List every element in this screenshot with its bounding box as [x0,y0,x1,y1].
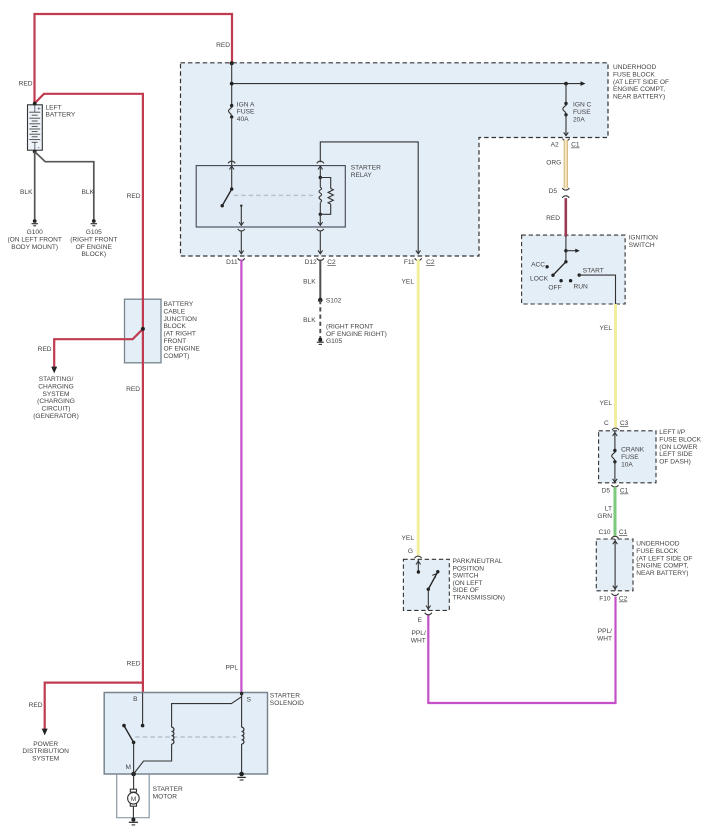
svg-text:LT: LT [605,506,612,513]
fuse IGN A 40A [228,101,255,123]
svg-text:LEFT SIDE: LEFT SIDE [659,451,693,458]
svg-text:(AT LEFT SIDE OF: (AT LEFT SIDE OF [636,555,692,562]
svg-text:TRANSMISSION): TRANSMISSION) [453,595,505,602]
svg-text:D5: D5 [549,188,558,195]
starter motor M [128,786,183,806]
svg-text:M: M [126,764,132,771]
svg-text:POWER: POWER [33,741,58,748]
ground at solenoid (S coil) [237,777,245,780]
svg-text:F10: F10 [599,596,611,603]
svg-text:RUN: RUN [574,284,589,291]
battery cable junction block box [125,299,201,363]
svg-text:G: G [408,548,413,555]
svg-text:C1: C1 [571,142,580,149]
starter motor housing box [117,774,150,818]
connector D12 C2 [305,258,336,266]
svg-text:D11: D11 [226,259,238,266]
svg-text:B: B [133,696,138,703]
svg-text:(ON LOWER: (ON LOWER [659,444,697,451]
starter relay box [196,165,381,227]
svg-text:E: E [418,617,423,624]
label starting/charging system [33,376,79,420]
relay pin arc (switch input) [228,161,235,163]
underhood block 2 internal wire [613,539,618,591]
svg-text:-: - [38,144,40,151]
starter solenoid box [104,693,304,775]
svg-text:STARTER: STARTER [270,693,300,700]
svg-text:MOTOR: MOTOR [153,793,178,800]
svg-text:RED: RED [29,702,43,709]
relay switch [221,166,244,226]
relay linkage dashed [234,194,316,196]
svg-text:JUNCTION: JUNCTION [164,316,198,323]
svg-text:BLOCK: BLOCK [164,323,187,330]
svg-text:FRONT: FRONT [164,338,187,345]
svg-text:BLOCK): BLOCK) [82,251,107,258]
svg-text:LOCK: LOCK [530,276,549,283]
wire PPL D11 to solenoid S [226,260,242,693]
ground G100 [7,219,61,251]
svg-text:C1: C1 [619,529,628,536]
svg-text:NEAR BATTERY): NEAR BATTERY) [636,570,688,577]
svg-text:STARTER: STARTER [153,786,183,793]
svg-text:M: M [131,796,137,803]
svg-text:ENGINE COMPT,: ENGINE COMPT, [636,563,688,570]
connector C10 C1 [598,529,627,538]
svg-text:D12: D12 [305,259,317,266]
solenoid pull-in coil (left) [134,693,242,774]
svg-text:UNDERHOOD: UNDERHOOD [613,64,656,71]
crank fuse internal wire bottom [613,462,618,483]
svg-text:40A: 40A [237,116,249,123]
relay pin arc (switch output, below) [238,229,245,254]
svg-text:SIDE OF: SIDE OF [453,587,479,594]
svg-text:(CHARGING: (CHARGING [37,398,75,405]
svg-text:F11: F11 [404,259,415,266]
svg-text:ACC: ACC [531,262,545,269]
svg-text:WHT: WHT [597,635,612,642]
svg-text:PPL: PPL [226,665,239,672]
svg-text:BODY MOUNT): BODY MOUNT) [11,244,58,251]
wire IGN C fuse to A2 exit with arrow [564,115,569,136]
svg-text:ENGINE COMPT,: ENGINE COMPT, [613,86,665,93]
connector G [408,548,422,558]
svg-text:SWITCH: SWITCH [453,573,479,580]
svg-text:OF DASH): OF DASH) [659,459,691,466]
svg-text:CIRCUIT): CIRCUIT) [42,406,71,413]
svg-text:BLK: BLK [20,189,33,196]
wire YEL F11 to park/neutral G [402,260,419,556]
svg-text:UNDERHOOD: UNDERHOOD [636,541,679,548]
label power distribution system [22,741,69,763]
svg-text:PPL/: PPL/ [598,628,612,635]
svg-text:DISTRIBUTION: DISTRIBUTION [22,748,69,755]
underhood fuse block (second, right column) [596,539,692,591]
svg-text:C2: C2 [426,259,435,266]
wire YEL ignition to C [600,304,616,428]
svg-text:LEFT I/P: LEFT I/P [659,429,685,436]
park/neutral switch internals [416,559,439,610]
svg-text:G100: G100 [27,229,43,236]
svg-text:IGN C: IGN C [573,102,592,109]
left I/P fuse block box [599,429,701,483]
svg-text:SOLENOID: SOLENOID [270,700,304,707]
svg-text:RED: RED [38,346,52,353]
underhood fuse block label [613,64,669,101]
connector D11 [226,258,245,266]
splice S102 [318,298,342,305]
svg-text:IGNITION: IGNITION [629,235,659,242]
solenoid linkage dashed [135,736,236,738]
svg-text:FUSE BLOCK: FUSE BLOCK [659,436,701,443]
solenoid pin labels [126,696,252,771]
ignition switch internals [530,236,615,304]
svg-text:(RIGHT FRONT: (RIGHT FRONT [326,324,373,331]
crank fuse internal wire top [613,431,618,451]
ignition switch box [522,235,659,305]
svg-text:(AT LEFT SIDE OF: (AT LEFT SIDE OF [613,79,669,86]
svg-text:PARK/NEUTRAL: PARK/NEUTRAL [453,558,503,565]
svg-text:20A: 20A [573,116,585,123]
svg-text:D5: D5 [602,488,611,495]
wire RED battery to fuse block (top run) [19,14,232,104]
ground at starter motor [129,818,138,825]
wire RED battery to junction block / solenoid B (main feed) [35,94,143,693]
svg-text:RELAY: RELAY [351,172,373,179]
svg-text:START: START [583,268,604,275]
svg-text:(ON LEFT FRONT: (ON LEFT FRONT [7,236,61,243]
connector C C3 [604,420,629,430]
svg-text:FUSE: FUSE [573,109,591,116]
svg-text:BLK: BLK [82,189,95,196]
node battery feed into fuse block [230,61,234,65]
ground G105 [70,219,117,258]
svg-text:POSITION: POSITION [453,565,485,572]
svg-text:NEAR BATTERY): NEAR BATTERY) [613,94,665,101]
connector D5 C1 [602,485,629,495]
battery LEFT BATTERY [28,102,76,154]
svg-text:+: + [37,106,41,113]
svg-text:IGN A: IGN A [237,101,255,108]
svg-text:FUSE: FUSE [621,454,639,461]
svg-text:YEL: YEL [402,279,415,286]
svg-text:CRANK: CRANK [621,447,645,454]
svg-text:COMPT): COMPT) [164,353,190,360]
svg-text:GRN: GRN [597,513,612,520]
wire RED D5 to ignition switch [546,198,566,236]
fuse CRANK 10A [612,447,645,469]
svg-text:CABLE: CABLE [164,308,186,315]
svg-text:C10: C10 [598,529,610,536]
svg-text:BATTERY: BATTERY [164,301,194,308]
underhood fuse block (main, L-shaped) [181,63,609,256]
wire internal bus in fuse block [230,63,586,105]
park/neutral position switch box [403,558,504,610]
svg-text:RED: RED [546,215,560,222]
svg-text:OF ENGINE RIGHT): OF ENGINE RIGHT) [326,331,387,338]
svg-text:RED: RED [216,42,230,49]
connector D5 (inline) [549,188,570,198]
svg-text:A2: A2 [551,142,559,149]
svg-text:PPL/: PPL/ [412,630,426,637]
svg-text:(AT RIGHT: (AT RIGHT [164,331,196,338]
wire PPL/WHT right column down and across [411,597,616,704]
solenoid contact switch [122,693,144,776]
connector F10 C2 [599,593,627,602]
svg-text:(ON LEFT: (ON LEFT [453,580,483,587]
node S terminal [240,692,243,695]
svg-text:YEL: YEL [402,535,415,542]
wire ORG A2 to D5 [546,140,566,188]
wire BLK D12 to S102 [303,260,320,301]
svg-text:ORG: ORG [546,159,561,166]
wire F11 feed to relay coil [320,142,420,254]
junction block splice dot and branch to charging system [38,327,145,374]
svg-text:RED: RED [19,81,33,88]
svg-text:FUSE BLOCK: FUSE BLOCK [613,71,655,78]
wire M to starter motor [133,774,135,790]
ground G105 (engine right) [317,324,387,346]
svg-text:C2: C2 [327,259,336,266]
connector F11 C2 [404,258,435,266]
svg-text:G105: G105 [326,338,342,345]
wire RED branch to power distribution [29,683,143,736]
svg-text:FUSE BLOCK: FUSE BLOCK [636,548,678,555]
wire LT GRN [597,487,615,536]
relay coil with parallel resistor [318,166,333,226]
svg-text:RED: RED [126,386,140,393]
svg-text:G105: G105 [86,229,102,236]
svg-text:YEL: YEL [600,400,613,407]
solenoid hold-in coil (right) [239,693,244,776]
svg-text:SYSTEM: SYSTEM [42,391,69,398]
svg-text:STARTER: STARTER [351,165,381,172]
wire BLK battery to G105 [35,152,95,220]
svg-text:BLK: BLK [303,317,316,324]
wire IGN A fuse to relay [231,117,233,166]
svg-text:YEL: YEL [600,325,613,332]
connector A2 C1 [551,139,580,149]
wire BLK battery to G100 [20,152,35,220]
relay pin arc (coil output, below) [317,229,324,254]
wire starter motor to ground [132,806,134,820]
wire BLK S102 to G105 (dashed) [303,300,320,339]
svg-text:OF ENGINE: OF ENGINE [164,345,201,352]
relay pin arc (coil input) [317,161,324,163]
svg-text:S102: S102 [326,298,342,305]
svg-text:FUSE: FUSE [237,109,255,116]
svg-text:C1: C1 [620,488,629,495]
svg-text:C3: C3 [620,420,629,427]
svg-text:10A: 10A [621,461,633,468]
svg-text:BATTERY: BATTERY [46,112,76,119]
svg-text:RED: RED [127,193,141,200]
svg-text:BLK: BLK [303,279,316,286]
svg-text:LEFT: LEFT [46,104,62,111]
svg-text:C: C [604,420,609,427]
svg-text:OF ENGINE: OF ENGINE [76,244,113,251]
svg-text:RED: RED [127,661,141,668]
connector E [418,613,432,624]
svg-text:STARTING/: STARTING/ [39,376,74,383]
fuse IGN C 20A [563,84,592,124]
svg-text:CHARGING: CHARGING [38,383,74,390]
svg-text:S: S [247,697,252,704]
svg-text:C2: C2 [619,596,628,603]
svg-text:SYSTEM: SYSTEM [32,756,59,763]
svg-text:(RIGHT FRONT: (RIGHT FRONT [70,236,117,243]
svg-text:SWITCH: SWITCH [629,242,655,249]
svg-text:WHT: WHT [411,637,426,644]
svg-text:(GENERATOR): (GENERATOR) [33,413,79,420]
svg-text:OFF: OFF [548,285,561,292]
